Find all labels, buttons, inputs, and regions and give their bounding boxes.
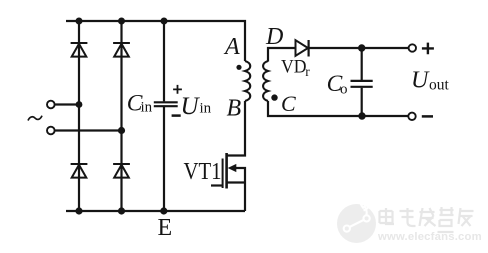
svg-text:VT1: VT1 bbox=[184, 159, 222, 185]
svg-text:r: r bbox=[305, 64, 310, 79]
svg-text:U: U bbox=[181, 93, 201, 120]
svg-text:E: E bbox=[158, 215, 173, 241]
svg-text:C: C bbox=[281, 91, 296, 116]
svg-text:U: U bbox=[411, 68, 430, 94]
svg-text:o: o bbox=[340, 82, 348, 98]
svg-text:www.elecfans.com: www.elecfans.com bbox=[377, 231, 482, 243]
svg-text:B: B bbox=[227, 96, 242, 122]
svg-text:in: in bbox=[200, 101, 212, 117]
svg-text:D: D bbox=[265, 24, 283, 50]
svg-text:out: out bbox=[429, 76, 450, 93]
svg-text:in: in bbox=[141, 100, 153, 116]
svg-text:A: A bbox=[223, 34, 240, 60]
svg-text:VD: VD bbox=[281, 57, 307, 77]
